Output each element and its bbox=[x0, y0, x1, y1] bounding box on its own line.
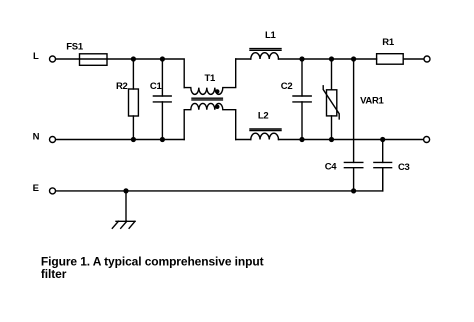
resistor R2 lead top bbox=[132, 59, 134, 89]
varistor VAR1 diagonal bbox=[323, 86, 339, 119]
transformer T1 secondary phase dot bbox=[215, 105, 219, 109]
svg-text:C2: C2 bbox=[281, 81, 293, 92]
junction node C4 branch top bbox=[351, 56, 356, 61]
junction node C4 on E bbox=[351, 188, 356, 193]
svg-text:L: L bbox=[33, 51, 39, 62]
svg-text:R1: R1 bbox=[382, 37, 395, 48]
terminal N input bbox=[50, 137, 56, 143]
junction node R2 top bbox=[131, 56, 136, 61]
junction node C2 bottom bbox=[299, 137, 304, 142]
wire L from fuse to T1 bbox=[107, 59, 184, 88]
wire T1 to L2 bbox=[236, 139, 251, 141]
svg-text:C3: C3 bbox=[398, 162, 410, 173]
wire C3 branch vertical bbox=[382, 140, 384, 163]
junction node C1 bottom bbox=[160, 137, 165, 142]
svg-text:C4: C4 bbox=[325, 162, 338, 173]
capacitor C2 lead bottom bbox=[301, 102, 303, 140]
varistor VAR1 body bbox=[327, 90, 337, 116]
inductor L2 core bbox=[250, 129, 281, 131]
capacitor C1 lead top bbox=[161, 59, 163, 96]
ground bbox=[112, 191, 135, 228]
junction node ground stem bbox=[123, 188, 128, 193]
inductor L1 core bbox=[250, 49, 281, 51]
capacitor C3 lead bottom bbox=[382, 168, 384, 191]
wire E line bbox=[56, 168, 383, 191]
capacitor C4 plates bbox=[344, 162, 362, 167]
wire N input to T1 bbox=[56, 139, 184, 141]
svg-text:FS1: FS1 bbox=[66, 42, 84, 53]
svg-text:N: N bbox=[33, 132, 40, 143]
capacitor C4 lead bottom bbox=[353, 168, 355, 191]
transformer T1 primary phase dot bbox=[215, 89, 219, 93]
svg-text:Figure 1. A typical comprehens: Figure 1. A typical comprehensive input bbox=[41, 255, 264, 269]
fuse FS1 element line bbox=[80, 58, 108, 60]
svg-text:L2: L2 bbox=[258, 110, 269, 121]
svg-text:filter: filter bbox=[41, 267, 67, 281]
inductor L1 winding bbox=[251, 53, 279, 59]
wire L2 to terminal N output bbox=[279, 139, 424, 141]
wire R1 to terminal bbox=[403, 58, 424, 60]
wire T1 to L1 bbox=[236, 58, 251, 60]
svg-text:L1: L1 bbox=[265, 30, 277, 41]
svg-text:E: E bbox=[33, 183, 39, 194]
transformer T1 primary winding bbox=[184, 59, 236, 94]
terminal N output bbox=[424, 137, 430, 143]
wire L1 to R1 bbox=[279, 58, 377, 60]
capacitor C1 plates bbox=[153, 96, 171, 102]
junction node C1 top bbox=[160, 56, 165, 61]
inductor L2 winding bbox=[251, 133, 279, 139]
varistor VAR1 lead top bbox=[331, 59, 333, 90]
resistor R1 body bbox=[377, 54, 404, 64]
resistor R2 body bbox=[129, 89, 139, 116]
junction node VAR1 bottom bbox=[329, 137, 334, 142]
transformer T1 core bbox=[192, 98, 222, 100]
junction node C3 on N bbox=[380, 137, 385, 142]
varistor VAR1 lead bottom bbox=[331, 116, 333, 140]
svg-text:T1: T1 bbox=[205, 73, 217, 84]
svg-text:VAR1: VAR1 bbox=[360, 95, 384, 106]
terminal L input bbox=[50, 56, 56, 62]
capacitor C2 plates bbox=[293, 96, 311, 102]
terminal E input bbox=[50, 188, 56, 194]
capacitor C2 lead top bbox=[301, 59, 303, 96]
transformer T1 secondary winding bbox=[184, 103, 236, 139]
junction node VAR1 top bbox=[329, 56, 334, 61]
wire C4 branch vertical bbox=[353, 59, 355, 162]
junction node C2 top bbox=[299, 56, 304, 61]
fuse FS1 body bbox=[80, 54, 108, 66]
capacitor C1 lead bottom bbox=[161, 102, 163, 140]
resistor R2 lead bottom bbox=[132, 116, 134, 140]
junction node R2 bottom bbox=[131, 137, 136, 142]
terminal L output bbox=[424, 56, 430, 62]
capacitor C3 plates bbox=[374, 162, 392, 167]
svg-text:R2: R2 bbox=[116, 81, 128, 92]
svg-text:C1: C1 bbox=[150, 81, 163, 92]
wire L input to fuse bbox=[56, 58, 80, 60]
